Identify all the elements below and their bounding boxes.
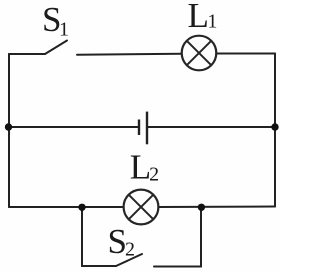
wire middle right (battery to right) [148,126,276,128]
wire left vertical [8,54,10,207]
wire bottom left [9,206,124,208]
node junction bottom-left of S2 branch [78,204,85,211]
switch S2 blade [116,254,142,266]
wire L1 to top-right corner [216,53,275,55]
lamp L1 [182,36,217,71]
node junction left-middle [5,123,12,130]
battery B1 [139,112,147,145]
wire S2 branch right [154,208,201,267]
node junction right-middle [271,123,278,130]
wire right vertical [274,54,276,207]
wire bottom right [158,206,275,209]
wire S1 to L1 [77,53,182,56]
node junction bottom-right of S2 branch [198,204,205,211]
wire middle left (to battery) [9,126,139,128]
lamp L2 [124,190,159,225]
wire top-left horizontal [9,53,45,55]
switch S1 blade [45,41,67,55]
wire S2 branch left [82,208,116,266]
